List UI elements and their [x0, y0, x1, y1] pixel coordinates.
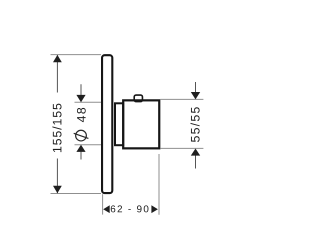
arrowhead left (depth dim) [103, 205, 110, 213]
dimension tail bottom (diameter dim) [80, 152, 82, 160]
label 155/155 [52, 104, 61, 152]
handle [134, 95, 142, 102]
extension line (sleeve bottom right, 55 dim) [160, 147, 203, 149]
extension line (collar top, diameter dim) [75, 101, 102, 103]
label 48 [77, 108, 86, 122]
extension line (sleeve top right, 55 dim) [160, 98, 203, 100]
extension line bottom (plate bottom, 155 dim) [51, 193, 102, 195]
extension line (wall plane, depth dim) [102, 194, 104, 214]
extension line (collar bottom, diameter dim) [75, 144, 102, 146]
arrowhead down (diameter top) [76, 95, 85, 102]
dimension tail top (diameter dim) [80, 84, 82, 95]
arrowhead right (depth dim) [151, 205, 158, 213]
sleeve [123, 100, 159, 148]
collar [115, 103, 123, 145]
label 55/55 [191, 107, 200, 142]
dimension tail top (55 dim) [195, 82, 197, 92]
arrowhead up (155 top) [53, 55, 62, 62]
label diameter symbol [74, 130, 89, 141]
label 62 - 90 [111, 205, 149, 212]
arrowhead down (155 bottom) [53, 186, 62, 193]
dimension line 155/155 upper segment [56, 55, 58, 92]
dimension line 155/155 lower segment [56, 159, 58, 194]
escutcheon plate (side view) [102, 55, 112, 193]
extension line top (plate top, 155 dim) [51, 54, 102, 56]
arrowhead down (55 top) [191, 92, 200, 99]
extension line (sleeve end, depth dim) [158, 154, 160, 215]
dimension tail bottom (55 dim) [195, 155, 197, 168]
arrowhead up (diameter bottom) [76, 145, 85, 152]
arrowhead up (55 bottom) [191, 149, 200, 156]
